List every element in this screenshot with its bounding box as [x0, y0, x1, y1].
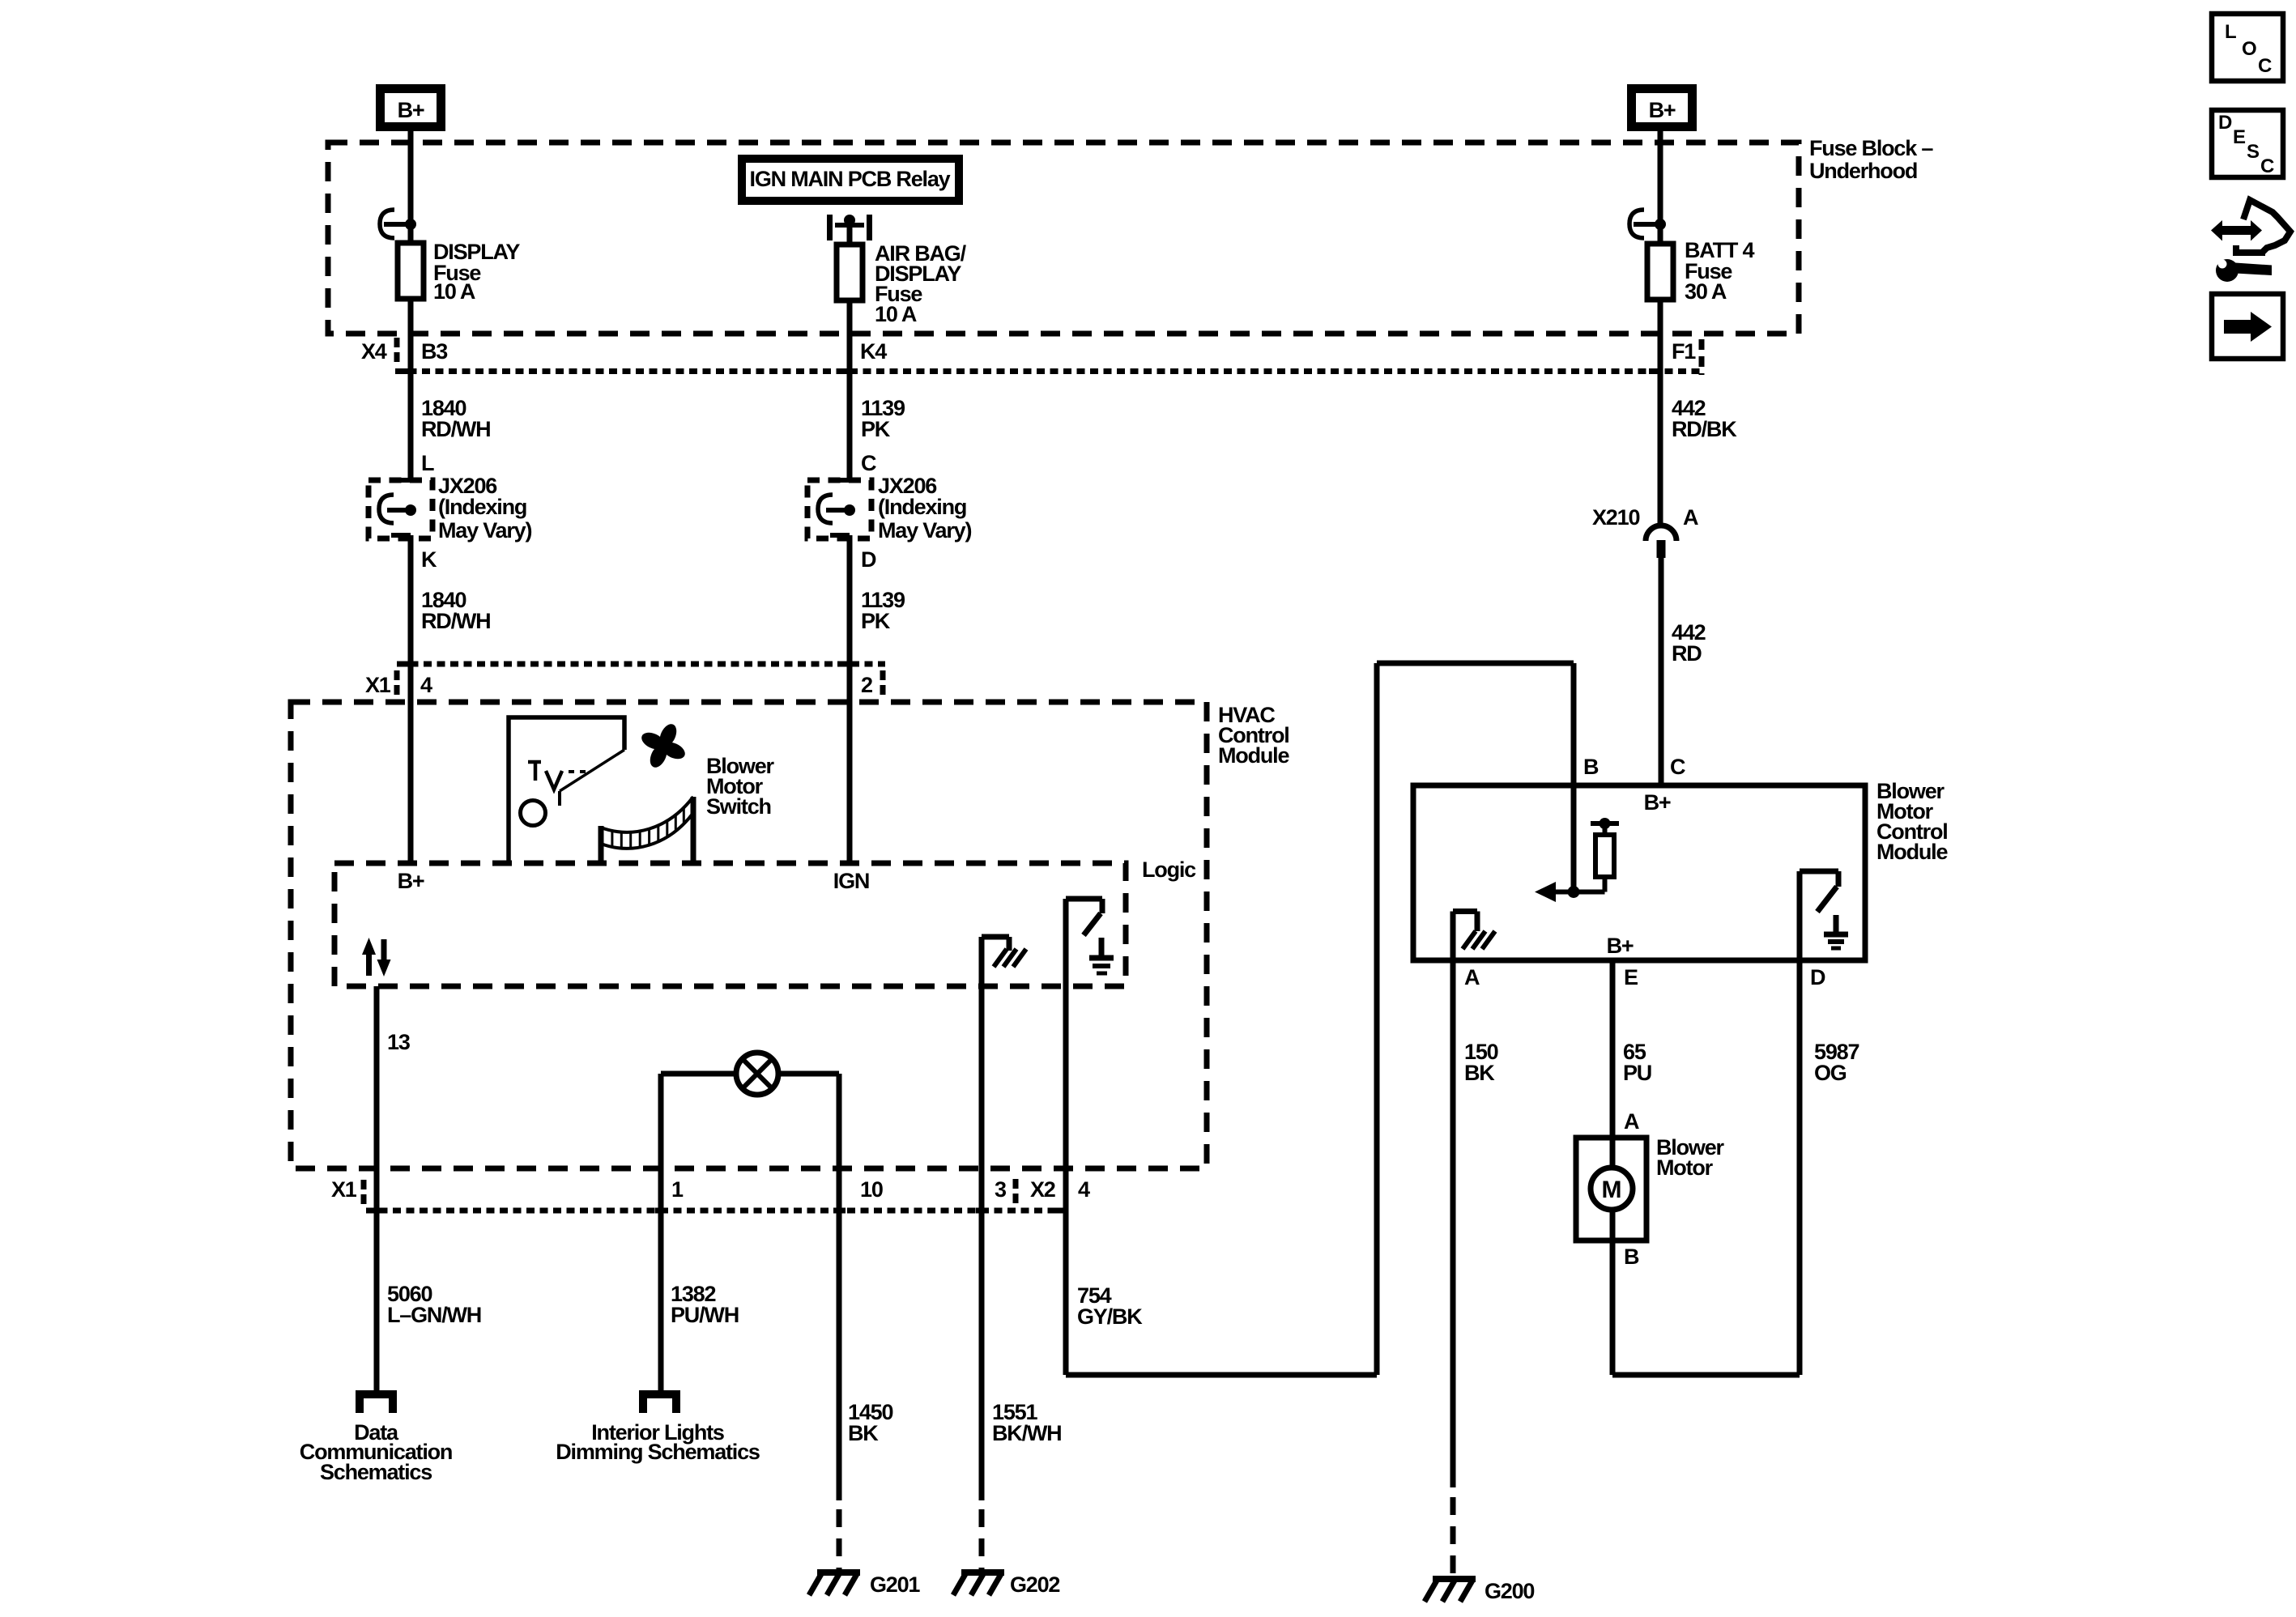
svg-text:4: 4	[1078, 1177, 1090, 1202]
svg-text:Schematics: Schematics	[320, 1460, 432, 1484]
svg-text:B+: B+	[1644, 790, 1671, 815]
wire label 754 GY/BK	[1077, 1283, 1143, 1329]
wire B+ left to fuse	[408, 131, 414, 243]
fuse AIR BAG/DISPLAY 10 A	[837, 241, 967, 326]
svg-text:A: A	[1683, 505, 1698, 530]
svg-text:B3: B3	[421, 339, 448, 364]
module internal control arrow	[1535, 882, 1574, 902]
module internal resistor	[1574, 818, 1619, 892]
wire X210 to module pin C	[1659, 558, 1664, 785]
wire label 5060 L-GN/WH	[387, 1282, 481, 1327]
lamp (illumination)	[736, 1053, 778, 1095]
svg-text:B+: B+	[398, 98, 424, 122]
connector row X4/B3/K4/F1 dotted line	[361, 338, 1704, 375]
svg-text:M: M	[1602, 1177, 1622, 1203]
wire label 5987 OG	[1814, 1040, 1859, 1085]
wire label 1840 RD/WH lower	[421, 588, 490, 633]
module internal: B wire and control node	[1568, 785, 1580, 898]
module internal switch to earth ground (pin D)	[1800, 871, 1848, 960]
fuse DISPLAY 10 A	[398, 240, 520, 304]
svg-text:RD/WH: RD/WH	[421, 417, 490, 441]
svg-text:L: L	[421, 451, 434, 475]
svg-text:IGN: IGN	[833, 869, 869, 893]
svg-text:2: 2	[861, 673, 872, 697]
wire label 1450 BK	[848, 1400, 892, 1445]
wire 150 BK from pin A	[1450, 960, 1456, 1487]
svg-text:BK/WH: BK/WH	[992, 1421, 1061, 1445]
data up/down arrows in logic	[362, 938, 391, 977]
connector X210	[1592, 505, 1698, 558]
wire label 442 RD/BK	[1672, 396, 1737, 441]
wire label 1139 PK upper	[861, 396, 905, 441]
bus tap hook right	[1629, 210, 1666, 238]
wire relay to fuse middle	[847, 219, 853, 245]
connector row X1 1 10 3 X2 4 dotted line (HVAC exit)	[331, 1177, 1090, 1211]
svg-text:Logic: Logic	[1142, 857, 1196, 882]
svg-text:4: 4	[420, 673, 432, 697]
wire label 1139 PK lower	[861, 588, 905, 633]
svg-text:10: 10	[860, 1177, 883, 1202]
svg-text:GY/BK: GY/BK	[1077, 1304, 1143, 1329]
svg-text:C: C	[2258, 55, 2272, 77]
svg-text:X210: X210	[1592, 505, 1639, 530]
switch to earth ground in logic (754)	[1066, 899, 1114, 986]
off-page connector Interior Lights Dimming Schematics	[556, 1394, 760, 1464]
svg-text:G200: G200	[1485, 1579, 1534, 1603]
svg-text:B+: B+	[1607, 934, 1634, 958]
svg-text:BK: BK	[848, 1421, 879, 1445]
svg-text:Motor: Motor	[1656, 1155, 1714, 1180]
svg-text:E: E	[1624, 965, 1638, 989]
wire JX206 left down to HVAC	[398, 535, 412, 863]
svg-text:L: L	[2225, 21, 2237, 43]
ground G202	[953, 1572, 1059, 1597]
svg-text:Dimming Schematics: Dimming Schematics	[556, 1440, 760, 1464]
ground G201	[809, 1572, 920, 1597]
icon forward arrow box	[2212, 294, 2283, 359]
svg-text:B+: B+	[398, 869, 424, 893]
svg-text:IGN MAIN PCB Relay: IGN MAIN PCB Relay	[750, 167, 951, 191]
svg-text:X2: X2	[1030, 1177, 1055, 1202]
svg-text:RD/BK: RD/BK	[1672, 417, 1737, 441]
svg-text:C: C	[861, 451, 876, 475]
chassis ground in logic (1551)	[982, 937, 1026, 986]
svg-text:PU: PU	[1623, 1061, 1651, 1085]
svg-text:30 A: 30 A	[1685, 279, 1727, 304]
bus tap hook left	[380, 210, 416, 238]
svg-text:May Vary): May Vary)	[878, 518, 971, 543]
wire label 150 BK	[1464, 1040, 1498, 1085]
connector JX206 left	[368, 474, 531, 543]
pin 13 wire out of logic	[374, 986, 380, 1394]
fan icon	[632, 714, 694, 777]
svg-text:D: D	[861, 547, 876, 572]
power symbol B+ right	[1632, 89, 1693, 127]
svg-text:Switch: Switch	[706, 794, 771, 819]
svg-text:B+: B+	[1649, 98, 1676, 122]
svg-text:D: D	[2218, 112, 2232, 134]
blower motor M	[1576, 1135, 1725, 1240]
wire B+ right to fuse	[1658, 131, 1663, 244]
svg-text:D: D	[1810, 965, 1825, 989]
svg-text:(Indexing: (Indexing	[438, 495, 526, 519]
svg-text:K: K	[421, 547, 437, 572]
svg-text:G201: G201	[870, 1572, 920, 1597]
wire 65 PU from pin E to motor	[1610, 960, 1616, 1138]
dashed wire to G202	[979, 1509, 985, 1569]
svg-text:B: B	[1624, 1245, 1639, 1269]
svg-text:PK: PK	[861, 609, 891, 633]
svg-text:1: 1	[671, 1177, 684, 1202]
lamp circuit wires	[661, 1074, 839, 1500]
icon DESC box	[2212, 110, 2283, 177]
svg-text:10 A: 10 A	[433, 279, 475, 304]
relay K: IGN MAIN PCB Relay label box	[742, 159, 959, 201]
wire fuse middle down through K4	[838, 300, 852, 480]
svg-text:E: E	[2233, 126, 2246, 148]
dashed wire to G200	[1450, 1497, 1456, 1574]
ground G200	[1425, 1579, 1534, 1603]
wire JX206 right down to HVAC	[837, 535, 851, 863]
svg-text:G202: G202	[1010, 1572, 1059, 1597]
svg-text:C: C	[2260, 155, 2274, 177]
rheostat arc of switch	[601, 797, 693, 862]
svg-text:RD: RD	[1672, 641, 1702, 666]
dashed wire to G201	[837, 1509, 842, 1569]
wire fuse right down through F1	[1649, 300, 1663, 526]
svg-text:13: 13	[387, 1030, 411, 1054]
svg-text:B: B	[1583, 755, 1599, 779]
module internal chassis ground (pin A)	[1453, 912, 1495, 961]
svg-text:S: S	[2247, 141, 2260, 163]
svg-text:(Indexing: (Indexing	[878, 495, 966, 519]
svg-text:F1: F1	[1672, 339, 1696, 364]
blower motor switch icon	[509, 717, 624, 862]
svg-text:Module: Module	[1218, 743, 1289, 768]
relay output bracket	[830, 215, 870, 240]
wire label 1551 BK/WH	[992, 1400, 1061, 1445]
off-page connector Data Communication Schematics	[300, 1394, 452, 1484]
svg-text:L–GN/WH: L–GN/WH	[387, 1303, 481, 1327]
connector row X1 4 / 2 dotted line (HVAC entry)	[365, 664, 885, 697]
wire label 1382 PU/WH	[671, 1282, 739, 1327]
HVAC Control Module dashed box	[291, 702, 1289, 1168]
icon hand with wrench and double arrow	[2211, 200, 2290, 282]
power symbol B+ left	[381, 89, 441, 127]
icon LOC box	[2212, 14, 2283, 81]
svg-text:X1: X1	[331, 1177, 357, 1202]
wire label 1840 RD/WH upper	[421, 396, 490, 441]
svg-text:3: 3	[995, 1177, 1007, 1202]
fuse BATT 4 30 A	[1647, 238, 1754, 304]
connector JX206 right	[807, 474, 971, 543]
svg-text:Underhood: Underhood	[1809, 159, 1917, 183]
Blower Motor Control Module box	[1413, 779, 1948, 960]
svg-text:BK: BK	[1464, 1061, 1495, 1085]
svg-text:A: A	[1624, 1109, 1639, 1134]
svg-text:K4: K4	[860, 339, 887, 364]
svg-text:PU/WH: PU/WH	[671, 1303, 739, 1327]
wire 5987 OG loop from motor B to pin D	[1612, 960, 1800, 1375]
svg-text:May Vary): May Vary)	[438, 518, 531, 543]
Logic dashed box	[334, 857, 1196, 986]
Fuse Block - Underhood dashed box	[328, 136, 1933, 334]
wire fuse left down through X4-B3	[399, 299, 413, 480]
wire label 442 RD	[1672, 620, 1706, 666]
svg-text:OG: OG	[1814, 1061, 1847, 1085]
svg-text:O: O	[2242, 38, 2257, 60]
svg-text:10 A: 10 A	[875, 302, 917, 326]
svg-text:RD/WH: RD/WH	[421, 609, 490, 633]
svg-text:X4: X4	[361, 339, 387, 364]
svg-text:C: C	[1670, 755, 1685, 779]
svg-text:A: A	[1464, 965, 1480, 989]
svg-text:Module: Module	[1876, 840, 1948, 864]
wire label 65 PU	[1623, 1040, 1651, 1085]
wire 754 from logic to loop	[1066, 663, 1574, 1375]
svg-text:PK: PK	[861, 417, 891, 441]
svg-text:Fuse Block –: Fuse Block –	[1809, 136, 1933, 160]
svg-text:X1: X1	[365, 673, 391, 697]
wire 1551 from logic chassis ground down	[979, 986, 985, 1500]
blower motor switch label	[706, 754, 775, 819]
